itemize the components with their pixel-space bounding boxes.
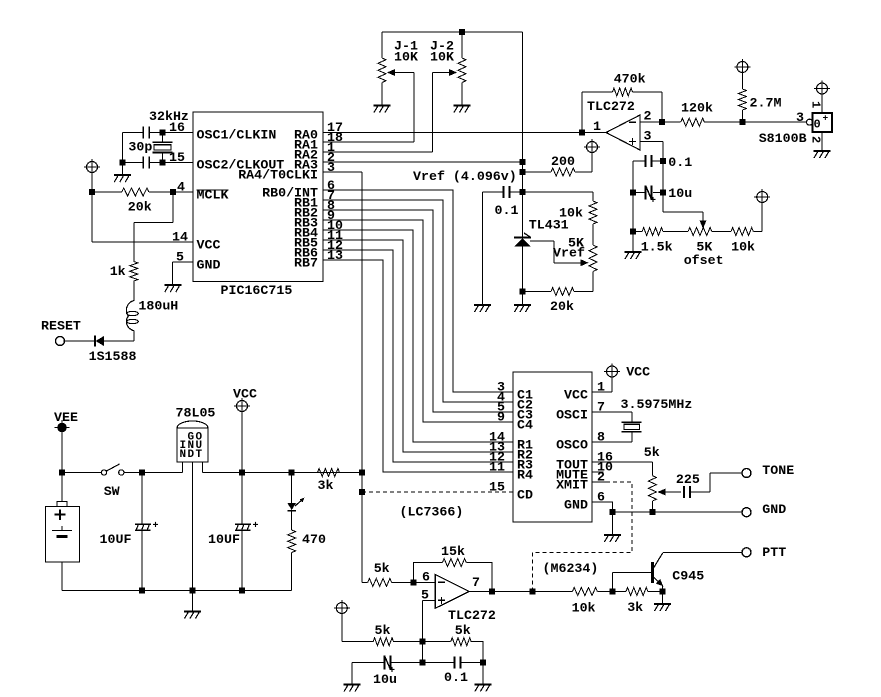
svg-text:TL431: TL431	[529, 218, 569, 233]
wire RA0 pin17 to opamp	[323, 132, 582, 134]
resistor 470k feedback	[582, 88, 662, 133]
wire GND pin5	[173, 262, 194, 285]
label 120k	[681, 101, 713, 116]
potentiometer 5K offset	[663, 228, 731, 236]
power VCC symbol bottom	[334, 600, 350, 616]
label 30p	[128, 140, 152, 155]
wire VCC pin14	[92, 192, 193, 242]
wire MCLK pin4	[173, 191, 193, 193]
wire VCC pin1 lc7366	[592, 377, 612, 392]
node GND terminal	[742, 508, 751, 517]
svg-text:180uH: 180uH	[138, 299, 178, 314]
svg-text:1: 1	[593, 119, 601, 134]
resistor 3k cd	[318, 469, 363, 477]
svg-text:RESET: RESET	[41, 319, 81, 334]
svg-text:Vref: Vref	[553, 246, 585, 261]
node VEE terminal	[55, 420, 70, 435]
svg-text:1: 1	[809, 101, 823, 108]
wire RB3 pin9 to LC7366	[323, 220, 513, 422]
ground offset	[625, 232, 642, 260]
power VCC symbol 2.7M	[734, 59, 750, 75]
pin numbers LC7366 right	[597, 380, 613, 505]
label 3k cd	[318, 478, 334, 493]
svg-text:11: 11	[489, 460, 505, 475]
svg-text:GND: GND	[762, 502, 786, 517]
ground lc7366	[604, 512, 621, 542]
wire switch to 78L05 IN	[124, 470, 183, 476]
wire OSC2 pin15	[122, 162, 193, 164]
svg-text:10k: 10k	[572, 601, 596, 616]
svg-text:(M6234): (M6234)	[543, 561, 599, 576]
node offset cap2	[660, 161, 666, 212]
power VCC symbol 78L05	[234, 398, 250, 414]
svg-text:2: 2	[809, 136, 823, 143]
label SW	[104, 484, 120, 499]
svg-text:RB7: RB7	[294, 256, 318, 271]
power VCC symbol mclk	[84, 159, 100, 175]
wire J-2 wiper to RA2 pin1	[323, 73, 433, 153]
potentiometer J-1 10K	[378, 32, 386, 106]
wire VCC down	[241, 412, 243, 473]
label 10k divider	[559, 206, 583, 221]
svg-text:32kHz: 32kHz	[149, 109, 189, 124]
label 10K j1	[394, 49, 418, 64]
resistor 200	[523, 168, 593, 176]
pin numbers LC7366 left	[489, 380, 505, 495]
label 0.1 offset	[668, 155, 692, 170]
label VCC 78L05	[233, 387, 257, 402]
wire 200 to VCC	[591, 153, 593, 173]
svg-text:SW: SW	[104, 484, 120, 499]
wire pin5 noninv	[419, 600, 435, 644]
resistor 3k be	[613, 588, 666, 596]
label S8100B	[759, 131, 807, 146]
wire offset caps left	[630, 161, 636, 235]
label (M6234)	[543, 561, 599, 576]
node offset cap1	[660, 158, 666, 164]
svg-text:0: 0	[814, 118, 821, 132]
wire wiper to opamp pin3	[663, 212, 707, 228]
ground J-1	[374, 106, 391, 113]
resistor 10k offset	[731, 228, 762, 236]
wire RB7 pin13 to LC7366	[323, 260, 513, 472]
svg-text:10K: 10K	[394, 49, 418, 64]
resistor 5k inverting input	[362, 578, 435, 586]
pin1 s8100b	[809, 94, 823, 113]
wire rail to switch	[62, 472, 102, 474]
wire RB2 pin8 to LC7366	[323, 210, 513, 412]
wire 120k to S8100B	[742, 121, 806, 123]
svg-text:10K: 10K	[430, 49, 454, 64]
node J-2 top junction	[459, 29, 465, 35]
wiper J-2 arrow	[433, 69, 457, 76]
svg-text:5k: 5k	[375, 623, 391, 638]
label 5k inv	[374, 561, 390, 576]
label 3k be	[627, 600, 643, 615]
svg-text:7: 7	[472, 575, 480, 590]
node RESET terminal	[56, 337, 65, 346]
wire J-1 wiper to RA1 pin18	[323, 73, 414, 143]
label Vref node	[413, 169, 517, 184]
label 5k tone	[644, 445, 660, 460]
svg-text:TLC272: TLC272	[587, 99, 635, 114]
label C945	[672, 568, 704, 583]
label 225	[676, 472, 700, 487]
svg-text:CD: CD	[517, 488, 533, 503]
ground rail	[184, 591, 201, 619]
label pin7	[472, 575, 480, 590]
svg-text:1S1588: 1S1588	[89, 349, 137, 364]
label 32kHz	[149, 109, 189, 124]
IC U5 LC7366	[513, 372, 592, 522]
svg-text:T: T	[196, 449, 203, 461]
label 470k	[614, 72, 646, 87]
label 5k noninv1	[375, 623, 391, 638]
svg-text:VCC: VCC	[233, 387, 257, 402]
node Vref cap junction	[520, 189, 526, 195]
label TONE	[762, 463, 794, 478]
wire 78L05 IN pin	[182, 462, 184, 473]
svg-text:OSCI: OSCI	[556, 408, 588, 423]
wire XMIT pin2 dashed	[533, 482, 632, 592]
label pin6	[422, 570, 430, 585]
wire vcc to mclk node	[89, 175, 95, 195]
IC U1 PIC16C715	[193, 112, 323, 298]
svg-text:2: 2	[644, 109, 652, 124]
label VEE	[54, 410, 78, 425]
wire 78L05 OUT pin	[203, 462, 366, 476]
wire VEE down	[59, 435, 65, 476]
svg-text:470k: 470k	[614, 72, 646, 87]
svg-text:0.1: 0.1	[668, 155, 692, 170]
TL431 U3	[514, 233, 531, 292]
capacitor 10u offset	[633, 185, 663, 207]
label TLC272 bottom	[448, 608, 496, 623]
svg-text:2.7M: 2.7M	[750, 96, 782, 111]
wire OSCO pin8	[592, 432, 632, 442]
capacitor 0.1 bottom	[422, 657, 486, 669]
switch SW	[101, 464, 124, 475]
svg-text:R4: R4	[517, 468, 533, 483]
label 10k base	[572, 601, 596, 616]
ground J-2	[454, 106, 471, 113]
svg-text:0.1: 0.1	[444, 670, 468, 685]
svg-text:GND: GND	[197, 258, 221, 273]
svg-text:N: N	[180, 449, 187, 461]
svg-text:20k: 20k	[550, 299, 574, 314]
label J-2	[430, 38, 454, 53]
ground 10u	[344, 663, 361, 692]
wire RA3 pin2 to Vref	[323, 159, 526, 165]
svg-text:C4: C4	[517, 418, 533, 433]
svg-text:0.1: 0.1	[495, 203, 519, 218]
capacitor 0.1 offset	[633, 155, 663, 167]
label J-1	[394, 38, 418, 53]
capacitor 10u bottom	[352, 656, 422, 678]
resistor 5k noninv 2	[422, 638, 483, 663]
label 3.5975MHz	[621, 397, 693, 412]
wire coil to diode	[104, 331, 134, 342]
svg-text:20k: 20k	[128, 199, 152, 214]
wire pin3 opamp	[640, 142, 663, 162]
crystal X2 3.5975MHz	[621, 422, 641, 431]
wire GND pin6 lc7366	[592, 502, 615, 515]
label 10K j2	[430, 49, 454, 64]
pin numbers PIC right	[327, 120, 343, 263]
svg-text:10u: 10u	[373, 672, 397, 687]
label 10UF output	[208, 532, 240, 547]
label 470	[302, 532, 326, 547]
node MCLK junction	[170, 189, 176, 195]
power VCC symbol 200	[584, 139, 600, 155]
potentiometer 5K Vref	[589, 245, 597, 292]
svg-text:S8100B: S8100B	[759, 131, 807, 146]
svg-text:XMIT: XMIT	[556, 478, 588, 493]
node Vref to 200	[520, 169, 526, 175]
svg-text:PIC16C715: PIC16C715	[221, 283, 293, 298]
svg-text:Vref (4.096v): Vref (4.096v)	[413, 169, 517, 184]
svg-text:TLC272: TLC272	[448, 608, 496, 623]
label 5K offset	[696, 240, 712, 255]
svg-text:120k: 120k	[681, 101, 713, 116]
svg-text:3k: 3k	[318, 478, 334, 493]
wire 78L05 GND pin	[190, 462, 196, 594]
svg-text:78L05: 78L05	[176, 405, 216, 420]
label pin3 s8100b	[796, 110, 804, 125]
regulator U6 78L05	[177, 421, 208, 462]
wire caps to ground	[119, 133, 125, 176]
label ofset	[684, 253, 724, 268]
svg-text:225: 225	[676, 472, 700, 487]
svg-text:OSCO: OSCO	[556, 438, 588, 453]
svg-text:+: +	[153, 521, 159, 532]
wire RB1 pin7 to LC7366	[323, 200, 513, 402]
svg-text:OSC1/CLKIN: OSC1/CLKIN	[197, 128, 277, 143]
svg-text:ofset: ofset	[684, 253, 724, 268]
resistor 20k mclk	[92, 188, 173, 196]
label 10UF input	[100, 532, 132, 547]
wiper J-1 arrow	[387, 69, 414, 76]
potentiometer 5k tone	[648, 476, 656, 513]
label 78L05	[176, 405, 216, 420]
resistor 15k feedback	[413, 559, 492, 592]
node TONE terminal	[742, 469, 751, 478]
wire RB4 pin10 to LC7366	[323, 230, 513, 442]
node OSC2 junction	[159, 160, 165, 166]
label GND terminal	[762, 502, 786, 517]
ground vref cap	[474, 305, 491, 312]
svg-text:10UF: 10UF	[208, 532, 240, 547]
svg-text:GND: GND	[564, 498, 588, 513]
capacitor 30p bottom	[143, 157, 149, 169]
power VCC symbol offset	[754, 189, 770, 205]
pin numbers PIC left	[169, 120, 188, 265]
svg-text:(LC7366): (LC7366)	[400, 505, 464, 520]
node OSC1 junction	[159, 130, 165, 136]
resistor 2.7M pullup	[738, 73, 746, 123]
wire CD pin15 dashed	[359, 489, 513, 495]
label pin5	[421, 588, 429, 603]
svg-text:TONE: TONE	[762, 463, 794, 478]
svg-text:200: 200	[551, 154, 575, 169]
wire Vref top rail	[382, 31, 523, 33]
svg-text:_: _	[822, 123, 829, 134]
label 180uH	[138, 299, 178, 314]
svg-text:VEE: VEE	[54, 410, 78, 425]
diode D2 LED	[287, 473, 304, 511]
ground 0.1	[474, 663, 491, 692]
label 200	[551, 154, 575, 169]
wire to TONE	[710, 473, 742, 492]
wire anode to ground	[522, 292, 524, 306]
wiper 5K arrow	[530, 241, 589, 266]
svg-text:1k: 1k	[110, 264, 126, 279]
svg-text:VCC: VCC	[564, 388, 588, 403]
capacitor 30p top	[143, 127, 149, 139]
wire GND rail to terminal	[612, 509, 742, 515]
label VCC lc7366	[626, 365, 650, 380]
svg-text:VCC: VCC	[197, 238, 221, 253]
wiper 5k arrow	[658, 489, 682, 496]
wire mclk to reset branch	[134, 192, 173, 262]
ground emitter	[654, 592, 671, 612]
svg-text:3k: 3k	[627, 600, 643, 615]
wire output pin7	[469, 589, 572, 595]
op-amp U2A TLC272	[606, 115, 640, 150]
diode D1 1S1588	[65, 336, 104, 347]
svg-text:+: +	[650, 196, 656, 207]
resistor 5k noninv 1	[342, 614, 423, 646]
label 2.7M	[750, 96, 782, 111]
wire MUTE pin10 stub	[592, 471, 604, 473]
capacitor 225	[684, 486, 710, 498]
resistor 1.5k	[633, 228, 663, 236]
node opamp out junction	[579, 130, 606, 136]
label 5k noninv2	[455, 623, 471, 638]
svg-text:5k: 5k	[374, 561, 390, 576]
label 10u bottom	[373, 672, 397, 687]
power VCC symbol s8100b	[814, 81, 830, 97]
label (LC7366)	[400, 505, 464, 520]
label TL431	[529, 218, 569, 233]
label 1k	[110, 264, 126, 279]
svg-text:5k: 5k	[644, 445, 660, 460]
battery BT1	[46, 473, 80, 591]
capacitor 10UF output	[235, 473, 259, 594]
label PTT	[762, 545, 786, 560]
label 20k	[128, 199, 152, 214]
node TL431 anode	[520, 289, 526, 295]
wire RB6 pin12 to LC7366	[323, 250, 513, 462]
wire pin2	[640, 119, 665, 125]
label pin3	[644, 128, 652, 143]
transistor Q1 C945	[613, 553, 664, 592]
ground tl431	[514, 305, 531, 312]
wire OSCI pin7	[592, 412, 632, 422]
wire bottom rail	[62, 590, 292, 592]
svg-text:10u: 10u	[668, 186, 692, 201]
resistor 10k base	[572, 588, 615, 596]
label 0.1 vref	[495, 203, 519, 218]
resistor 470 led	[288, 511, 296, 591]
svg-text:D: D	[188, 449, 195, 461]
svg-text:VCC: VCC	[626, 365, 650, 380]
wire 1k to coil	[133, 281, 135, 301]
power VCC symbol lc7366	[604, 364, 620, 380]
label 10u offset	[668, 186, 692, 201]
resistor 120k	[662, 118, 742, 126]
resistor 10k divider	[589, 201, 597, 245]
label RESET	[41, 319, 81, 334]
label 15k	[441, 544, 465, 559]
wire pin5 node down	[419, 642, 425, 666]
svg-text:1.5k: 1.5k	[641, 240, 673, 255]
svg-text:30p: 30p	[128, 140, 152, 155]
capacitor 0.1 vref	[483, 186, 523, 198]
capacitor 10UF input	[135, 473, 159, 594]
wire 10k to VCC	[761, 203, 763, 232]
svg-text:9: 9	[497, 410, 505, 425]
ground s8100b	[814, 151, 831, 158]
svg-text:470: 470	[302, 532, 326, 547]
label pin2	[644, 109, 652, 124]
IC U4 S8100B voltage detector	[807, 113, 833, 134]
inductor 180uH	[126, 301, 138, 331]
label TLC272 top	[587, 99, 635, 114]
wire TOUT pin16	[592, 462, 652, 476]
wire collector to PTT	[663, 551, 742, 553]
node 2.7M junction	[739, 119, 745, 125]
svg-text:10UF: 10UF	[100, 532, 132, 547]
label 10k offset	[731, 240, 755, 255]
ground pic	[164, 285, 181, 292]
wire RA4 vertical long	[361, 172, 363, 582]
wire cap to ground	[482, 192, 484, 305]
pin2 s8100b	[809, 132, 823, 151]
label 5K vref	[568, 236, 584, 251]
label 0.1 bottom	[444, 670, 468, 685]
resistor 1k	[130, 262, 138, 282]
wire RB0 pin6 to LC7366	[323, 190, 513, 392]
potentiometer J-2 10K	[458, 32, 466, 106]
wire vref to 10k divider	[523, 192, 594, 201]
ground osc	[114, 175, 131, 182]
svg-text:C945: C945	[672, 568, 704, 583]
node PTT terminal	[742, 548, 751, 557]
crystal X1 32kHz	[153, 133, 173, 163]
label Vref pot	[553, 246, 585, 261]
label 1S1588	[89, 349, 137, 364]
svg-text:PTT: PTT	[762, 545, 786, 560]
label pin1	[593, 119, 601, 134]
wire RA4 pin3 stub	[323, 171, 362, 173]
svg-text:15k: 15k	[441, 544, 465, 559]
svg-text:3.5975MHz: 3.5975MHz	[621, 397, 693, 412]
label 20k divider	[550, 299, 574, 314]
svg-text:5k: 5k	[455, 623, 471, 638]
svg-text:+: +	[253, 521, 259, 532]
svg-text:10k: 10k	[731, 240, 755, 255]
wire Vref vertical bus	[522, 32, 524, 237]
op-amp U2B TLC272	[435, 575, 469, 609]
svg-text:3: 3	[796, 110, 804, 125]
wire RB5 pin11 to LC7366	[323, 240, 513, 452]
resistor 20k divider	[523, 288, 594, 296]
svg-text:RA4/T0CLKI: RA4/T0CLKI	[238, 168, 318, 183]
wire OSC1 pin16	[122, 132, 193, 134]
label 1.5k	[641, 240, 673, 255]
